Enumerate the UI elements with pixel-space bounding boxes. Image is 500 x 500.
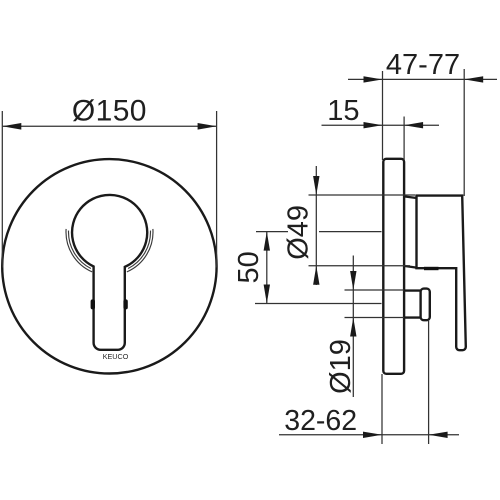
- wall plate (side view): [383, 159, 404, 374]
- dimension Ø150 arrow right: [198, 123, 217, 130]
- hub collar bottom edge: [404, 266, 417, 268]
- svg-text:Ø150: Ø150: [72, 95, 147, 128]
- dimension 32-62 extension line right: [428, 321, 430, 444]
- dimension 50 arrow up: [264, 232, 270, 251]
- handle/hub gap shadow: [424, 267, 439, 270]
- dimension 32-62 arrow left: [363, 432, 382, 438]
- svg-text:15: 15: [327, 95, 359, 127]
- recess ring arc right outer: [127, 229, 153, 272]
- dimension 32-62 extension line left: [381, 374, 383, 444]
- centre axis line of hub (right segment): [319, 231, 382, 233]
- dimension 47-77 line: [348, 78, 497, 80]
- dimension Ø150 extension line left: [1, 111, 3, 268]
- recess ring arc left outer: [66, 229, 92, 272]
- diverter stem bottom edge: [404, 316, 422, 318]
- dimension Ø49 extension line bottom: [309, 265, 411, 267]
- dimension 15 arrow right: [404, 122, 423, 128]
- lever pivot pin left: [91, 299, 95, 309]
- recess ring arc left inner: [68, 231, 90, 269]
- dimension Ø49 arrow top: [313, 176, 319, 195]
- dimension Ø150 arrow left: [2, 123, 21, 130]
- hub collar top edge: [404, 196, 417, 198]
- dimension 50 line: [266, 232, 268, 304]
- dimension Ø49 arrow bottom: [313, 266, 319, 285]
- escutcheon plate circle (front view, Ø150): [2, 159, 216, 373]
- dimension Ø19 line: [352, 256, 354, 398]
- dimension Ø19 extension line top: [345, 289, 405, 291]
- dimension 15 line: [322, 124, 440, 126]
- dimension Ø49 extension line top: [309, 194, 416, 196]
- dimension Ø19 extension line bottom: [345, 317, 405, 319]
- dimension Ø19 arrow bottom: [350, 318, 356, 337]
- svg-text:Ø19: Ø19: [325, 339, 357, 394]
- lever pivot pin right: [123, 299, 127, 309]
- svg-text:32-62: 32-62: [284, 405, 357, 437]
- dimension 47-77 extension line left: [382, 71, 384, 160]
- centre axis line of diverter stem: [255, 303, 382, 305]
- dimension Ø19 arrow top: [350, 271, 356, 290]
- dimension 47-77 extension line right: [463, 69, 465, 196]
- diverter knob cap: [421, 289, 430, 321]
- svg-text:KEUCO: KEUCO: [103, 352, 129, 361]
- svg-text:47-77: 47-77: [386, 49, 460, 81]
- svg-text:50: 50: [233, 251, 265, 283]
- recess ring arc right inner: [128, 231, 150, 269]
- dimension 32-62 arrow right: [429, 432, 448, 438]
- dimension 47-77 arrow left: [364, 76, 383, 82]
- dimension 32-62 line: [279, 434, 459, 436]
- dimension 15 extension line right: [403, 117, 405, 161]
- dimension Ø150 line: [2, 125, 216, 127]
- centre axis line of hub (left segment): [256, 231, 288, 233]
- dimension Ø150 extension line right: [216, 111, 218, 268]
- dimension 47-77 arrow right: [464, 76, 483, 82]
- dimension 15 arrow left: [364, 122, 383, 128]
- svg-text:Ø49: Ø49: [283, 205, 315, 260]
- handle body and lever (side view): [417, 196, 466, 351]
- dimension 50 arrow down: [264, 285, 270, 304]
- lever handle knob and stem (front view): [72, 195, 147, 350]
- dimension Ø49 line: [315, 166, 317, 285]
- diverter stem top edge: [404, 289, 422, 291]
